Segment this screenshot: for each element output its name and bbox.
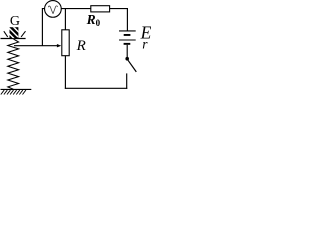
- wire battery top lead: [126, 8, 128, 31]
- battery E plate 2 long: [119, 39, 136, 41]
- voltmeter V mark: [48, 6, 57, 14]
- battery E plate 2 short thick: [124, 43, 131, 45]
- voltmeter circle: [45, 1, 62, 18]
- spring: [8, 39, 19, 89]
- battery E plate 1 short thick: [124, 34, 131, 36]
- resistor R (potentiometer body): [62, 30, 69, 56]
- wire top from R0 to battery corner: [110, 8, 128, 10]
- resistor R0: [91, 6, 110, 12]
- switch lower contact riser: [126, 73, 128, 88]
- wire R top lead: [64, 9, 66, 30]
- ground hatching: [1, 90, 26, 94]
- wire top from voltmeter to R0: [61, 8, 91, 10]
- svg-text:R0: R0: [86, 12, 101, 28]
- wiper arrowhead: [57, 44, 61, 47]
- svg-text:r: r: [142, 36, 148, 51]
- wire voltmeter left stub and drop to wiper: [42, 9, 45, 46]
- platform line: [1, 38, 26, 40]
- right tick of cradle: [21, 31, 25, 37]
- wiper wire with junction: [14, 45, 57, 47]
- weight block G (hatched): [5, 22, 25, 40]
- switch pivot dot: [125, 57, 129, 61]
- left tick of cradle: [4, 31, 8, 37]
- wire R bottom lead: [64, 56, 66, 89]
- ground line: [1, 88, 32, 90]
- svg-text:G: G: [10, 14, 20, 29]
- wire battery bottom to switch: [126, 45, 128, 58]
- switch lever (open): [128, 60, 137, 72]
- battery E plate 1 long: [119, 30, 136, 32]
- svg-text:R: R: [76, 38, 86, 54]
- wire bottom: [65, 87, 127, 89]
